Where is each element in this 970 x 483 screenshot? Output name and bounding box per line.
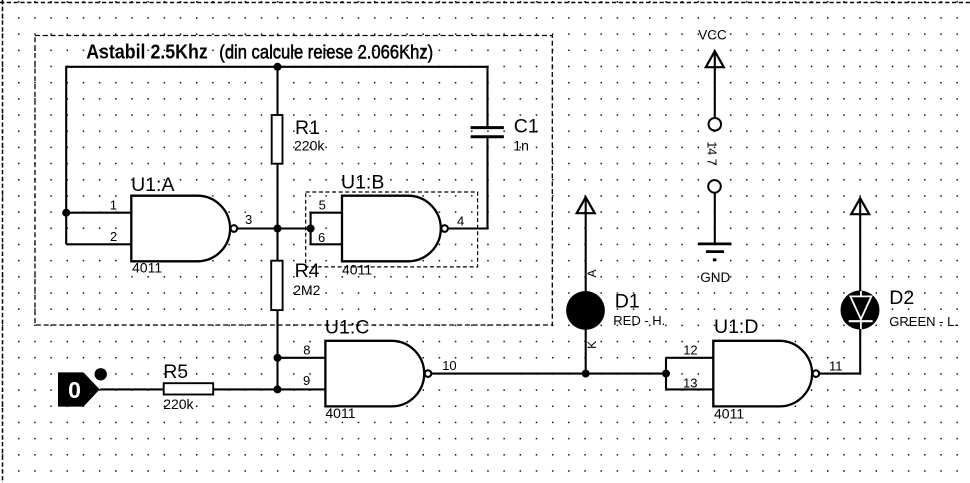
svg-text:5: 5 — [319, 198, 326, 213]
svg-text:2: 2 — [110, 229, 117, 244]
svg-text:11: 11 — [829, 359, 843, 374]
svg-text:U1:B: U1:B — [341, 172, 384, 194]
svg-text:R5: R5 — [163, 361, 188, 383]
svg-text:VCC: VCC — [698, 28, 727, 43]
svg-text:4: 4 — [457, 214, 464, 229]
svg-text:13: 13 — [683, 375, 697, 390]
svg-text:R4: R4 — [295, 260, 320, 282]
svg-text:9: 9 — [303, 373, 310, 388]
svg-text:4011: 4011 — [132, 260, 162, 276]
svg-text:0: 0 — [68, 377, 81, 403]
svg-text:D1: D1 — [615, 291, 640, 313]
svg-text:1n: 1n — [513, 137, 529, 153]
svg-text:C1: C1 — [514, 115, 539, 137]
svg-text:Astabil 2.5Khz: Astabil 2.5Khz — [86, 42, 208, 64]
svg-text:R1: R1 — [295, 117, 320, 139]
svg-text:8: 8 — [303, 343, 310, 358]
svg-text:(din calcule reiese 2.066Khz): (din calcule reiese 2.066Khz) — [219, 42, 433, 64]
svg-text:1: 1 — [110, 197, 117, 212]
svg-text:U1:D: U1:D — [714, 316, 758, 338]
svg-text:220k: 220k — [294, 137, 325, 153]
svg-text:220k: 220k — [163, 396, 194, 412]
svg-text:GREEN - L.: GREEN - L. — [889, 314, 958, 329]
svg-text:U1:A: U1:A — [131, 174, 174, 196]
svg-text:4011: 4011 — [342, 261, 372, 277]
svg-text:3: 3 — [245, 212, 252, 227]
svg-text:4011: 4011 — [714, 405, 744, 421]
svg-text:K: K — [585, 341, 599, 349]
svg-text:2M2: 2M2 — [293, 282, 320, 298]
svg-text:6: 6 — [318, 230, 325, 245]
svg-text:10: 10 — [442, 358, 456, 373]
svg-text:GND: GND — [700, 270, 730, 285]
svg-text:12: 12 — [683, 343, 697, 358]
svg-text:RED - H.: RED - H. — [613, 313, 665, 328]
svg-text:4011: 4011 — [325, 405, 355, 421]
svg-text:D2: D2 — [889, 287, 914, 309]
svg-text:14 7: 14 7 — [705, 141, 719, 165]
svg-text:U1:C: U1:C — [325, 317, 369, 339]
svg-text:A: A — [585, 269, 599, 277]
